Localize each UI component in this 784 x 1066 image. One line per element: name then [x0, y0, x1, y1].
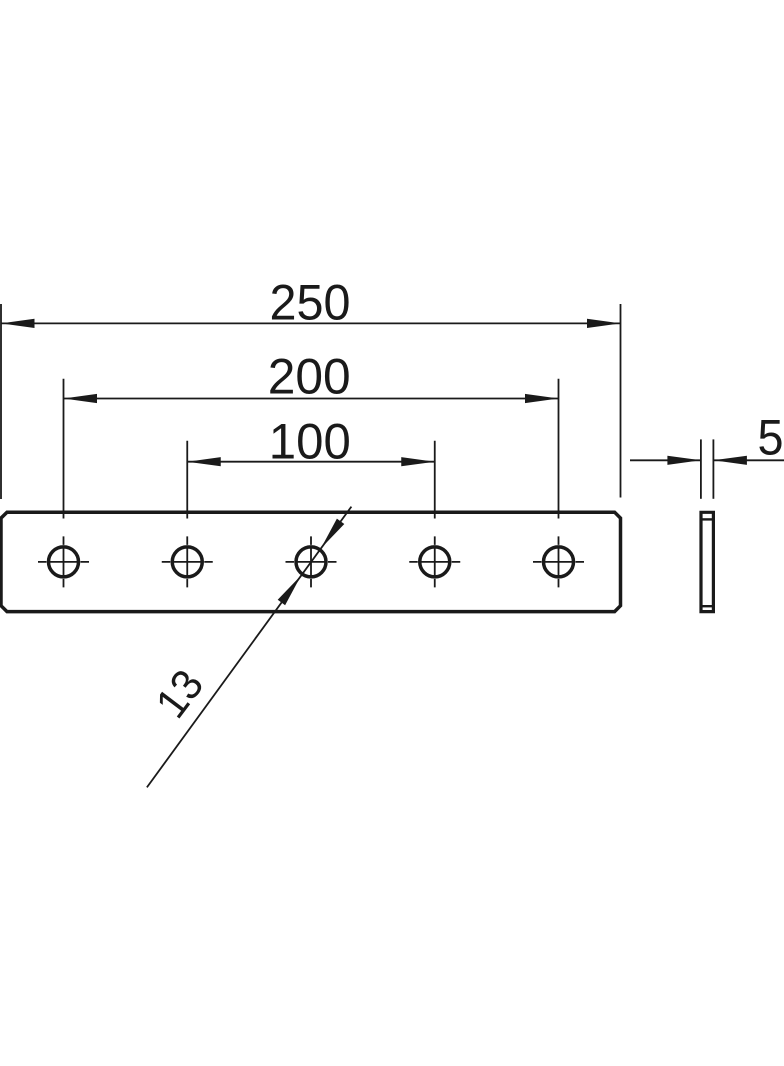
svg-text:100: 100 — [269, 414, 351, 470]
svg-text:200: 200 — [268, 349, 351, 405]
svg-text:5: 5 — [758, 410, 784, 466]
svg-text:250: 250 — [270, 275, 351, 331]
